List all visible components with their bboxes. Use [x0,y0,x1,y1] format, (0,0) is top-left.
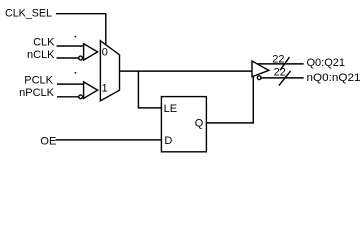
bus slash nQ [279,71,291,86]
wire nCLK input [57,57,79,59]
svg-text:1: 1 [102,82,108,94]
latch U3 [161,97,206,152]
wire CLK_SEL net [56,14,106,45]
svg-text:OE: OE [40,135,56,147]
inversion bubble on nPCLK [79,95,83,99]
svg-text:LE: LE [164,103,177,115]
wire CLK input [57,45,84,47]
wire junction drop to latch LE [138,71,161,108]
mux M1 [100,41,119,101]
input buffer U1 (CLK/nCLK) [84,44,98,60]
svg-text:CLK: CLK [33,36,55,48]
svg-text:22: 22 [274,67,286,79]
svg-text:PCLK: PCLK [24,74,53,86]
wire PCLK input [57,83,84,85]
svg-text:nCLK: nCLK [27,49,55,61]
svg-text:nPCLK: nPCLK [19,87,55,99]
wire nQ outputs bus [261,77,304,79]
inversion bubble on nCLK [79,56,83,60]
svg-text:D: D [164,135,172,147]
inversion bubble on nQ output [257,76,261,80]
svg-text:Q0:Q21: Q0:Q21 [307,57,346,69]
stray dot above U1 [75,36,77,38]
wire OE to latch D [56,139,162,141]
output buffer U4 [252,61,269,77]
svg-text:CLK_SEL: CLK_SEL [5,8,52,20]
wire nPCLK input [57,96,79,98]
wire latch Q to buffer enable [206,76,253,123]
stray dot above U2 [75,72,77,74]
wire Q outputs bus [257,63,304,65]
input buffer U2 (PCLK/nPCLK) [84,82,98,98]
svg-text:Q: Q [195,118,204,130]
svg-text:22: 22 [272,54,284,66]
svg-text:nQ0:nQ21: nQ0:nQ21 [307,72,361,84]
wire mux output to output buffer [120,70,252,72]
bus slash Q [280,57,290,70]
svg-text:0: 0 [102,46,108,58]
